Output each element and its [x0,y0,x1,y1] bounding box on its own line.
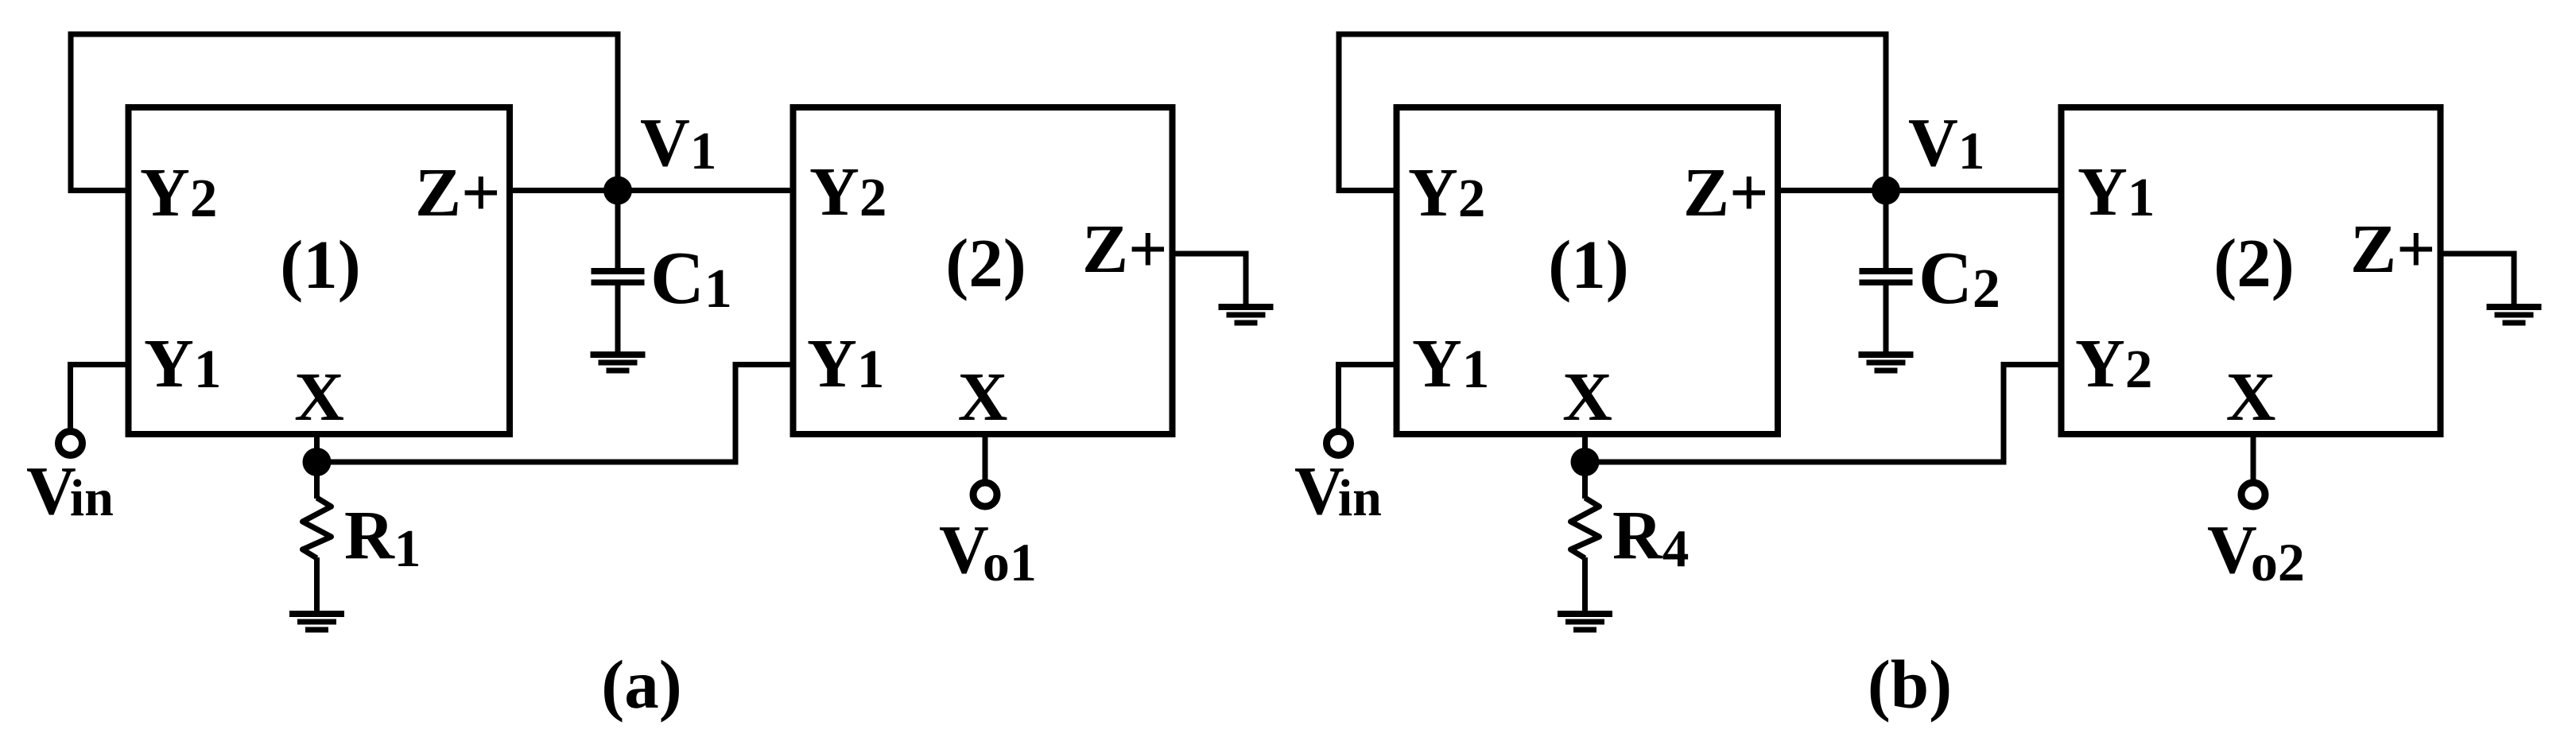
svg-text:X: X [2226,358,2276,435]
svg-text:(2): (2) [2213,224,2294,301]
svg-text:Z+: Z+ [1082,210,1168,287]
svg-text:X: X [294,358,344,435]
svg-text:(1): (1) [1548,226,1628,303]
svg-text:X: X [1562,358,1612,435]
svg-text:(1): (1) [280,226,360,303]
svg-text:(a): (a) [601,646,681,723]
svg-text:Z+: Z+ [2350,210,2436,287]
svg-text:Z+: Z+ [1683,153,1769,231]
svg-text:Z+: Z+ [415,153,501,231]
svg-text:(2): (2) [945,224,1026,301]
svg-text:X: X [958,358,1008,435]
svg-text:(b): (b) [1868,646,1952,723]
